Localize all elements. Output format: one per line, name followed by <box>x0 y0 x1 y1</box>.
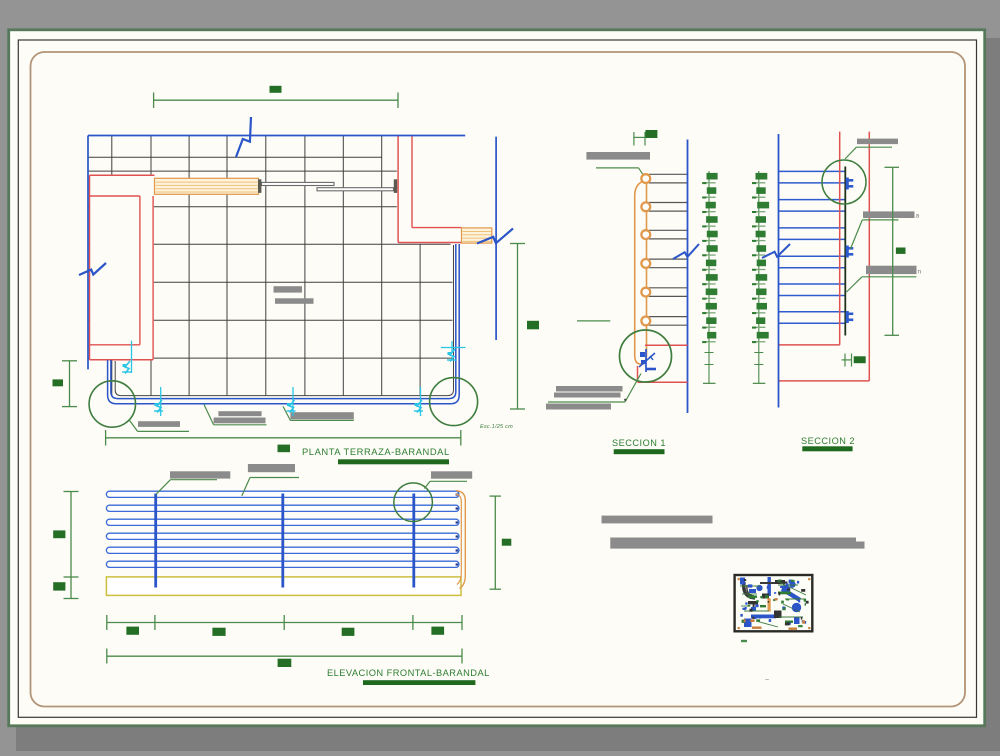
svg-text:n: n <box>918 269 922 276</box>
svg-text:PLANTA TERRAZA-BARANDAL: PLANTA TERRAZA-BARANDAL <box>302 446 450 457</box>
svg-text:a: a <box>916 213 920 220</box>
svg-text:SECCION 1: SECCION 1 <box>612 438 666 448</box>
svg-text:ELEVACION FRONTAL-BARANDAL: ELEVACION FRONTAL-BARANDAL <box>327 668 490 678</box>
svg-text:SECCION 2: SECCION 2 <box>801 436 855 446</box>
svg-text:Esc.1/25 cm: Esc.1/25 cm <box>480 424 513 430</box>
svg-text:~: ~ <box>765 677 769 684</box>
